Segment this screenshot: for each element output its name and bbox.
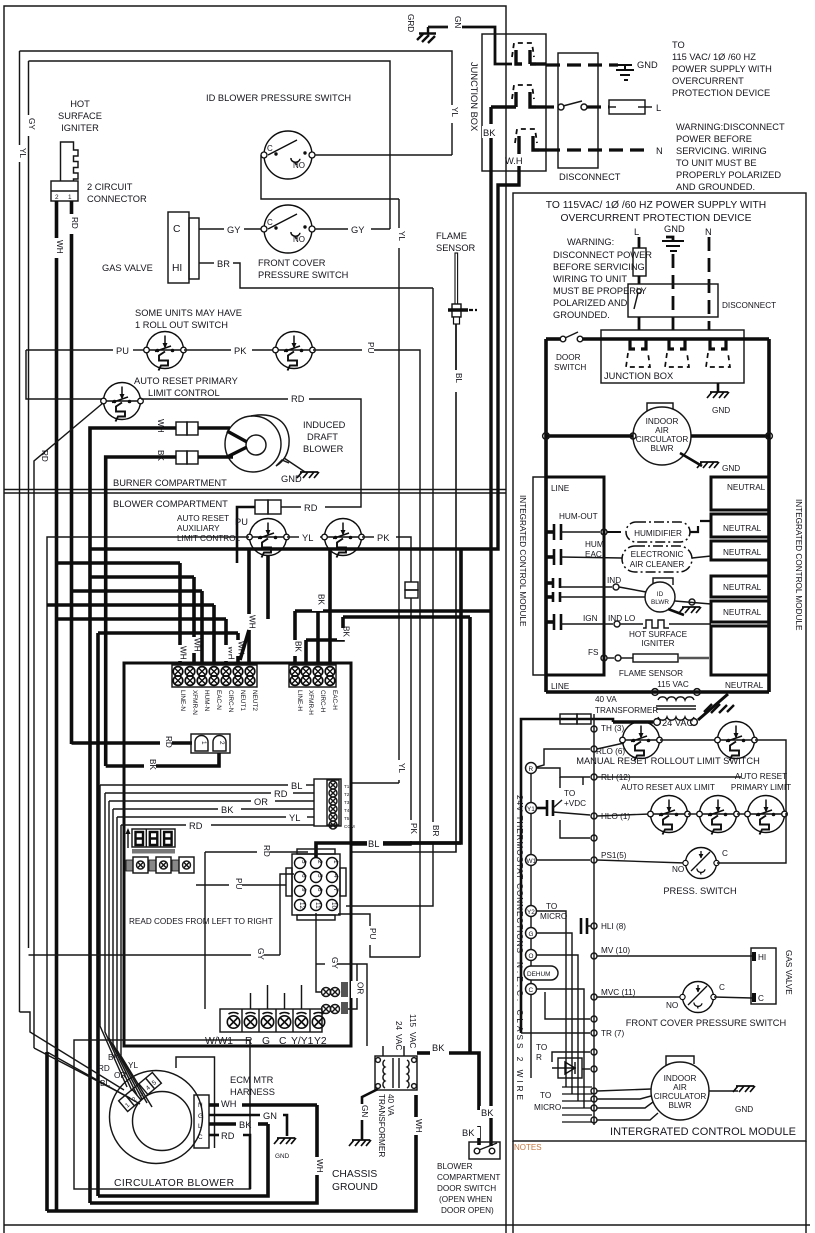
right bus vertical right panel xyxy=(767,339,771,676)
indoor blower 2 xyxy=(651,1056,709,1120)
transformer 115/24 xyxy=(656,697,696,720)
svg-text:24: 24 xyxy=(394,1021,403,1031)
big chassis gnd xyxy=(698,694,734,720)
svg-text:IGNITER: IGNITER xyxy=(61,123,99,133)
svg-text:NEUTRAL: NEUTRAL xyxy=(723,608,762,617)
wire RD T2 xyxy=(105,792,271,794)
svg-text:WH: WH xyxy=(55,240,64,254)
micro hatch wires xyxy=(562,1087,592,1122)
svg-text:AIR: AIR xyxy=(673,1083,687,1092)
svg-text:BLOWER: BLOWER xyxy=(303,444,344,454)
fan wire labels xyxy=(98,1053,138,1088)
svg-text:TO: TO xyxy=(546,902,557,911)
aux limit 1 xyxy=(648,796,691,835)
fuse component 1 xyxy=(322,982,349,997)
wire drop EAC-N xyxy=(212,605,216,663)
wire OR T3 xyxy=(109,800,251,802)
svg-text:AUTO RESET PRIMARY: AUTO RESET PRIMARY xyxy=(134,376,238,386)
svg-text:IGN: IGN xyxy=(583,614,598,623)
fuse L right xyxy=(633,248,646,276)
ECM terminal block xyxy=(194,1095,209,1148)
svg-text:RD: RD xyxy=(189,821,203,831)
wire RD aux inline xyxy=(281,506,301,508)
svg-text:INDOOR: INDOOR xyxy=(646,417,679,426)
G circle xyxy=(526,928,537,939)
svg-text:FRONT COVER PRESSURE SWITCH: FRONT COVER PRESSURE SWITCH xyxy=(626,1018,786,1028)
left bus vertical right panel xyxy=(544,339,548,676)
rollout switch 1 xyxy=(144,332,187,371)
svg-text:HUM: HUM xyxy=(585,540,604,549)
svg-text:BL: BL xyxy=(454,373,463,383)
jumper components xyxy=(126,857,194,873)
svg-text:Y2: Y2 xyxy=(527,909,535,916)
circulator blower enclosure box xyxy=(74,1040,250,1189)
svg-text:INDUCED: INDUCED xyxy=(303,420,346,430)
blower gnd xyxy=(284,458,305,472)
svg-text:IND: IND xyxy=(607,576,621,585)
svg-text:BURNER COMPARTMENT: BURNER COMPARTMENT xyxy=(113,478,227,488)
wire RD primary limit right xyxy=(141,398,288,400)
svg-text:C: C xyxy=(529,987,534,994)
svg-text:GY: GY xyxy=(27,118,36,130)
front cover pressure switch xyxy=(261,205,315,253)
svg-text:AUTO RESET: AUTO RESET xyxy=(735,772,787,781)
svg-text:XFMR-N: XFMR-N xyxy=(191,690,198,715)
svg-text:R: R xyxy=(529,766,534,773)
wire drop EAC-H xyxy=(328,549,332,662)
wire YL T5 xyxy=(117,816,286,818)
YL label right vertical xyxy=(446,105,459,123)
svg-text:INTEGRATED CONTROL MODULE: INTEGRATED CONTROL MODULE xyxy=(518,495,527,627)
svg-text:BLOWER COMPARTMENT: BLOWER COMPARTMENT xyxy=(113,499,228,509)
svg-text:BL: BL xyxy=(291,781,302,791)
svg-text:GY: GY xyxy=(351,225,364,235)
label BK junction xyxy=(482,126,499,138)
wire PK between xyxy=(184,349,231,351)
svg-text:NEUTRAL: NEUTRAL xyxy=(725,681,764,690)
wire PK aux right xyxy=(362,536,374,538)
T1-T5 terminal block xyxy=(314,779,355,829)
warning text xyxy=(676,122,785,192)
svg-text:FLAME: FLAME xyxy=(436,231,467,241)
svg-text:YL: YL xyxy=(18,148,27,158)
svg-text:PK: PK xyxy=(409,823,418,834)
svg-text:HUM-N: HUM-N xyxy=(203,690,210,712)
svg-text:GND: GND xyxy=(664,224,685,234)
wire WH down from junction box xyxy=(517,151,520,154)
IGN cap xyxy=(546,614,561,630)
bottom bus xyxy=(544,676,548,692)
LINE box xyxy=(546,477,604,675)
wire GY gas valve to switch xyxy=(199,228,224,230)
svg-text:CIRCULATOR: CIRCULATOR xyxy=(636,435,689,444)
svg-text:C: C xyxy=(279,1036,287,1047)
svg-text:COM: COM xyxy=(344,824,355,829)
svg-text:AUXILIARY: AUXILIARY xyxy=(177,524,220,533)
svg-text:YL: YL xyxy=(128,1061,138,1070)
svg-text:115 VAC: 115 VAC xyxy=(657,680,689,689)
top bus with door switch xyxy=(546,337,560,341)
svg-text:24V THERMOSTAT CONNECTIONS: 24V THERMOSTAT CONNECTIONS xyxy=(515,795,524,954)
wire drop LINE-N xyxy=(178,563,182,645)
svg-text:PU: PU xyxy=(366,342,375,353)
svg-text:PK: PK xyxy=(377,533,390,543)
diode box xyxy=(552,1058,582,1078)
gnd ECM xyxy=(274,1138,296,1144)
wire drop CIRC-N xyxy=(224,619,228,645)
circulator blower inner xyxy=(133,1092,192,1151)
svg-text:2 CIRCUIT: 2 CIRCUIT xyxy=(87,182,133,192)
TH fuse wire xyxy=(560,719,613,722)
wire WH inline xyxy=(198,426,230,430)
svg-text:SENSOR: SENSOR xyxy=(436,243,476,253)
svg-text:ECM MTR: ECM MTR xyxy=(230,1075,274,1085)
svg-text:WARNING:: WARNING: xyxy=(567,237,614,247)
svg-text:DOOR: DOOR xyxy=(556,353,581,362)
svg-text:+VDC: +VDC xyxy=(564,799,586,808)
O circle xyxy=(526,950,537,961)
svg-text:T5: T5 xyxy=(344,816,350,821)
svg-text:T3: T3 xyxy=(344,800,350,805)
wire OR down xyxy=(341,964,357,1009)
svg-text:WH: WH xyxy=(193,638,202,652)
induced draft blower xyxy=(225,415,289,472)
svg-text:RD: RD xyxy=(70,217,79,229)
svg-text:BLWR: BLWR xyxy=(668,1101,691,1110)
R circle xyxy=(526,763,537,774)
svg-text:GAS VALVE: GAS VALVE xyxy=(784,950,793,995)
dashed GND wire xyxy=(546,63,618,66)
svg-text:TR (7): TR (7) xyxy=(601,1029,624,1038)
svg-text:BK: BK xyxy=(317,594,326,605)
front cover press switch right xyxy=(680,982,716,1013)
svg-text:RD: RD xyxy=(98,1064,110,1073)
blower1 wires xyxy=(546,434,633,438)
T wire verticals down xyxy=(100,785,127,1087)
svg-text:HOT SURFACE: HOT SURFACE xyxy=(629,630,688,639)
chassis ground transformer xyxy=(349,1140,371,1146)
svg-text:OVERCURRENT: OVERCURRENT xyxy=(672,76,744,86)
svg-text:DEHUM: DEHUM xyxy=(527,971,550,978)
plug 3 xyxy=(515,129,546,151)
thermostat strip xyxy=(220,1009,325,1032)
rollout switch 1 right xyxy=(620,722,663,761)
svg-text:GND: GND xyxy=(637,60,658,70)
IND forks xyxy=(546,578,560,602)
svg-text:AIR CLEANER: AIR CLEANER xyxy=(630,560,685,569)
wires transformer to board xyxy=(382,1046,384,1056)
thermostat labels xyxy=(205,1036,327,1047)
EAC cap xyxy=(546,549,561,565)
svg-text:T4: T4 xyxy=(344,808,350,813)
svg-text:RD: RD xyxy=(164,736,173,748)
terminal y1052 xyxy=(591,1049,597,1055)
svg-text:6: 6 xyxy=(300,874,307,878)
svg-text:12: 12 xyxy=(298,902,305,910)
Y1 circle xyxy=(526,803,537,814)
svg-text:TH (3): TH (3) xyxy=(601,724,624,733)
ID blower pressure switch xyxy=(261,131,315,179)
harness bus y549 xyxy=(90,547,461,551)
svg-text:DOOR OPEN): DOOR OPEN) xyxy=(441,1206,494,1215)
DEHUM oval xyxy=(524,966,558,980)
svg-text:LIMIT CONTROL: LIMIT CONTROL xyxy=(148,388,220,398)
svg-text:LINE-N: LINE-N xyxy=(179,690,186,711)
svg-text:DISCONNECT POWER: DISCONNECT POWER xyxy=(553,250,652,260)
svg-text:N: N xyxy=(656,146,663,156)
HLI transistor xyxy=(581,918,591,934)
svg-text:TO UNIT MUST BE: TO UNIT MUST BE xyxy=(676,158,757,168)
svg-text:GND: GND xyxy=(712,406,730,415)
svg-text:PU: PU xyxy=(368,928,377,939)
wire GN transformer xyxy=(362,1089,378,1140)
svg-text:AIR: AIR xyxy=(655,426,669,435)
flame sensor right xyxy=(601,655,607,661)
svg-text:YL: YL xyxy=(397,763,406,773)
svg-text:READ CODES FROM LEFT TO RIGHT: READ CODES FROM LEFT TO RIGHT xyxy=(129,917,273,926)
svg-text:JUNCTION BOX: JUNCTION BOX xyxy=(604,371,673,381)
wire right vertical thick to board xyxy=(352,549,461,843)
BK labels door switch xyxy=(480,1106,497,1118)
aux limit 2 xyxy=(697,796,740,835)
MVC (11) xyxy=(591,994,597,1000)
wire BL label right xyxy=(367,838,383,849)
svg-text:POWER SUPPLY WITH: POWER SUPPLY WITH xyxy=(672,64,772,74)
svg-text:FRONT COVER: FRONT COVER xyxy=(258,258,326,268)
aux limit switch 1 xyxy=(247,519,290,558)
svg-text:WH: WH xyxy=(414,1119,423,1133)
svg-text:PS1(5): PS1(5) xyxy=(601,851,627,860)
left thin wires into fan xyxy=(20,1012,125,1090)
label WH drops xyxy=(174,645,188,661)
svg-text:NO: NO xyxy=(666,1001,678,1010)
module box edge continuations xyxy=(512,1141,514,1233)
wire from ID switch left down and right xyxy=(261,155,399,199)
svg-text:GND: GND xyxy=(275,1153,290,1160)
TR (7) xyxy=(591,1030,597,1036)
dashed N wire xyxy=(546,148,650,151)
wire YL left vertical xyxy=(19,51,21,145)
wire BL T1 xyxy=(100,784,288,786)
plug 1 xyxy=(512,43,546,64)
svg-text:WH: WH xyxy=(315,1159,324,1173)
blower1 gnd xyxy=(680,453,702,466)
svg-text:HUMIDIFIER: HUMIDIFIER xyxy=(634,529,682,538)
svg-text:BK: BK xyxy=(481,1108,494,1118)
svg-text:1: 1 xyxy=(200,741,207,745)
harness bus y563 xyxy=(57,561,181,565)
Y1 transistor xyxy=(537,800,562,816)
control board outline xyxy=(124,663,351,1046)
disconnect switch symbol xyxy=(637,289,641,293)
svg-text:VAC: VAC xyxy=(408,1032,417,1048)
svg-text:1 ROLL OUT SWITCH: 1 ROLL OUT SWITCH xyxy=(135,320,228,330)
svg-text:NEUT1: NEUT1 xyxy=(239,690,246,711)
svg-text:Y/Y1: Y/Y1 xyxy=(291,1036,314,1047)
fuse L xyxy=(609,100,645,114)
wire RD igniter xyxy=(70,201,74,214)
wire BK down from junction box xyxy=(489,107,492,124)
svg-text:MVC (11): MVC (11) xyxy=(601,988,636,997)
svg-text:MICRO: MICRO xyxy=(534,1103,561,1112)
ID BLWR gnd xyxy=(668,609,684,615)
svg-text:OR: OR xyxy=(254,797,268,807)
svg-text:PU: PU xyxy=(235,517,248,527)
svg-text:WH: WH xyxy=(179,646,188,660)
harness BK y640 xyxy=(306,617,343,640)
wire YL top horizontal xyxy=(20,51,453,155)
dashed step to neutral xyxy=(690,521,711,532)
wire GY switch to right xyxy=(315,228,348,230)
svg-text:BL: BL xyxy=(368,839,379,849)
svg-text:7: 7 xyxy=(332,888,339,892)
primary limit right xyxy=(745,796,788,835)
svg-text:TO 115VAC/ 1Ø /60 HZ POWER SUP: TO 115VAC/ 1Ø /60 HZ POWER SUPPLY WITH xyxy=(546,200,767,211)
svg-text:TO: TO xyxy=(564,789,575,798)
rollout wires xyxy=(597,743,624,749)
svg-text:GROUND: GROUND xyxy=(332,1182,378,1193)
svg-text:CHASSIS: CHASSIS xyxy=(332,1169,377,1180)
svg-text:WH: WH xyxy=(248,615,257,629)
svg-text:TRANSFORMER: TRANSFORMER xyxy=(377,1094,386,1157)
WH label transformer wire xyxy=(410,1117,423,1135)
svg-text:GY: GY xyxy=(256,948,265,960)
hot surface igniter labels xyxy=(58,99,102,133)
svg-text:RD: RD xyxy=(221,1131,235,1141)
W1 circle xyxy=(526,855,537,866)
svg-text:CONNECTOR: CONNECTOR xyxy=(87,194,147,204)
svg-text:TO: TO xyxy=(536,1043,547,1052)
junction box right xyxy=(601,330,744,383)
plug r1 xyxy=(626,339,650,367)
display arrow xyxy=(127,830,129,848)
svg-text:YL: YL xyxy=(397,231,406,241)
wire RD COM xyxy=(121,824,186,826)
RLI wire xyxy=(537,768,590,777)
board 2pin connector xyxy=(191,734,230,753)
WH label vertical 316 xyxy=(311,1157,324,1175)
svg-text:RD: RD xyxy=(262,845,271,857)
svg-text:HOT: HOT xyxy=(70,99,90,109)
svg-text:4: 4 xyxy=(332,874,339,878)
svg-text:YL: YL xyxy=(302,533,313,543)
svg-text:GY: GY xyxy=(227,225,240,235)
GND dashed + ground xyxy=(666,237,673,241)
svg-text:GN: GN xyxy=(263,1111,277,1121)
svg-text:HI: HI xyxy=(172,263,182,274)
wire from ID switch right to YL xyxy=(315,154,452,156)
svg-text:5: 5 xyxy=(316,874,323,878)
plug r2 xyxy=(665,339,689,367)
rollout switch 2 right xyxy=(715,722,758,761)
svg-text:C: C xyxy=(758,994,764,1003)
module edge vertical xyxy=(593,714,595,1125)
wire PU rollout right xyxy=(313,349,362,351)
svg-text:10: 10 xyxy=(330,902,337,910)
L dashed line xyxy=(638,237,641,248)
wire BL thick to 12pin connector xyxy=(316,843,461,857)
svg-text:WIRING TO UNIT: WIRING TO UNIT xyxy=(553,274,627,284)
svg-text:SWITCH: SWITCH xyxy=(554,363,586,372)
svg-text:HUM-OUT: HUM-OUT xyxy=(559,512,598,521)
svg-text:RD: RD xyxy=(274,789,288,799)
7 segment display xyxy=(132,829,175,854)
door switch xyxy=(469,1142,500,1159)
wire GN ECM xyxy=(209,1114,260,1117)
svg-text:BK: BK xyxy=(108,1053,119,1062)
svg-text:BK: BK xyxy=(221,805,234,815)
svg-text:AND GROUNDED.: AND GROUNDED. xyxy=(676,182,755,192)
svg-text:SOME UNITS MAY HAVE: SOME UNITS MAY HAVE xyxy=(135,308,242,318)
svg-text:OR: OR xyxy=(114,1071,126,1080)
svg-text:2: 2 xyxy=(316,860,323,864)
igniter element right xyxy=(643,620,669,628)
svg-text:BK: BK xyxy=(294,641,303,652)
svg-text:L: L xyxy=(634,227,639,237)
wire BK to board connector xyxy=(106,764,144,768)
wire drop LINE-H xyxy=(293,611,297,640)
rollout switch 2 xyxy=(273,332,316,371)
press switch xyxy=(683,848,719,879)
wire BR into connector right xyxy=(346,905,352,907)
wire drop HUM-N xyxy=(200,591,204,663)
neutral terminal strip xyxy=(172,665,257,687)
svg-text:GND: GND xyxy=(722,464,740,473)
svg-text:RD: RD xyxy=(291,394,305,404)
HLI (8) xyxy=(591,923,597,929)
svg-text:9: 9 xyxy=(300,888,307,892)
harness BK y617 xyxy=(343,615,470,619)
svg-text:LINE-H: LINE-H xyxy=(296,690,303,711)
svg-text:2: 2 xyxy=(55,194,59,201)
Y2 circle xyxy=(526,906,537,917)
svg-text:NEUT2: NEUT2 xyxy=(251,690,258,711)
hot terminal strip xyxy=(289,665,336,687)
wire GY top horizontal xyxy=(29,61,391,229)
24 VAC wire xyxy=(613,720,653,724)
svg-text:JUNCTION BOX: JUNCTION BOX xyxy=(469,62,479,131)
svg-text:W1: W1 xyxy=(527,858,537,865)
thermostat strip entry stubs xyxy=(251,985,302,1009)
circulator blower outer xyxy=(110,1071,203,1164)
terminal y1019 xyxy=(591,1016,597,1022)
integrated control module outer box (right panel) xyxy=(513,193,806,1141)
compartment divider double line xyxy=(4,489,506,491)
svg-text:BK: BK xyxy=(483,128,496,138)
svg-text:COMPARTMENT: COMPARTMENT xyxy=(437,1173,500,1182)
svg-text:GY: GY xyxy=(330,957,339,969)
svg-text:INTEGRATED CONTROL MODULE: INTEGRATED CONTROL MODULE xyxy=(794,499,803,631)
outer border left panel xyxy=(4,6,506,1233)
hot strip labels xyxy=(296,690,338,715)
svg-text:WARNING:DISCONNECT: WARNING:DISCONNECT xyxy=(676,122,785,132)
svg-text:OR: OR xyxy=(356,982,365,994)
svg-text:BK: BK xyxy=(148,759,157,770)
svg-text:PRESS. SWITCH: PRESS. SWITCH xyxy=(663,886,736,896)
svg-text:SERVICING. WIRING: SERVICING. WIRING xyxy=(676,146,767,156)
40VA transformer xyxy=(375,1056,417,1090)
svg-text:O: O xyxy=(529,953,534,960)
svg-text:WH: WH xyxy=(221,1099,237,1109)
svg-text:40 VA: 40 VA xyxy=(595,695,617,704)
svg-text:PROPERLY POLARIZED: PROPERLY POLARIZED xyxy=(676,170,781,180)
svg-text:XFMR-H: XFMR-H xyxy=(307,690,314,715)
ID BLWR xyxy=(645,578,675,612)
indoor air circulator blower 1 xyxy=(633,403,691,465)
12 pin connector xyxy=(286,849,346,920)
svg-text:N: N xyxy=(198,1102,203,1109)
svg-text:BR: BR xyxy=(431,825,440,836)
